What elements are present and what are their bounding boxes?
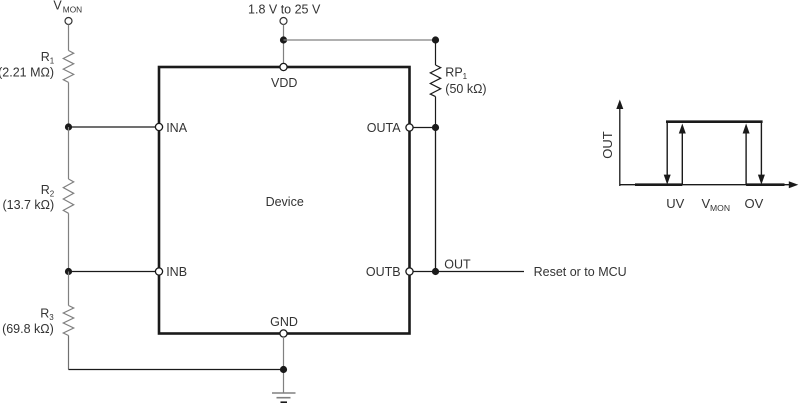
svg-text:OUT: OUT <box>444 257 471 271</box>
svg-text:R: R <box>40 306 49 320</box>
svg-text:OUTB: OUTB <box>366 265 401 279</box>
svg-text:(50 kΩ): (50 kΩ) <box>445 82 486 96</box>
svg-text:(69.8 kΩ): (69.8 kΩ) <box>2 322 54 336</box>
wire bottom rail to ground node <box>69 369 284 371</box>
svg-text:OUT: OUT <box>600 131 615 159</box>
label R3 <box>40 306 54 322</box>
wire node A to R2 <box>68 127 70 179</box>
svg-text:MON: MON <box>63 4 82 14</box>
svg-text:(13.7 kΩ): (13.7 kΩ) <box>2 198 54 212</box>
graph X axis <box>620 181 799 188</box>
pin GND <box>280 330 287 337</box>
wire supply terminal to VDD pin <box>283 25 285 64</box>
ground <box>272 393 296 402</box>
svg-text:R: R <box>41 50 50 64</box>
wire R2 to node B <box>68 213 70 271</box>
svg-text:MON: MON <box>710 203 730 213</box>
svg-text:V: V <box>53 0 62 13</box>
label RP1 <box>445 65 467 81</box>
junction node B <box>65 268 72 275</box>
wire RP1 top lead <box>435 40 437 65</box>
junction OUTA node <box>432 124 439 131</box>
label R2 <box>41 183 55 199</box>
rising edge arrow at OV <box>743 124 750 185</box>
svg-text:Device: Device <box>266 195 304 209</box>
svg-text:INB: INB <box>166 265 187 279</box>
svg-text:UV: UV <box>666 196 684 211</box>
pin OUTB <box>406 268 413 275</box>
wire node B to R3 <box>68 272 70 306</box>
waveform high segment <box>666 120 763 123</box>
rising edge arrow at UV <box>679 124 686 185</box>
wire node A to INA <box>69 126 156 128</box>
graph label VMON <box>702 196 731 213</box>
pin INA <box>155 123 162 130</box>
device U1 box <box>159 67 410 334</box>
wire VMON terminal to R1 <box>68 25 70 51</box>
svg-text:R: R <box>41 183 50 197</box>
wire R3 down to bottom rail <box>68 336 70 370</box>
svg-text:OUTA: OUTA <box>367 121 401 135</box>
svg-text:(2.21 MΩ): (2.21 MΩ) <box>0 65 54 79</box>
junction OUTB node <box>432 268 439 275</box>
terminal VDD supply <box>280 18 287 25</box>
svg-text:Reset or to MCU: Reset or to MCU <box>534 265 627 279</box>
resistor R3 <box>63 306 73 336</box>
waveform low segment right <box>746 183 784 186</box>
label R1 <box>41 50 55 66</box>
wire OUTB to junction <box>413 271 436 273</box>
junction ground node <box>280 366 287 373</box>
junction RP1 top <box>432 36 439 43</box>
junction supply split <box>280 36 287 43</box>
svg-text:RP: RP <box>445 65 462 79</box>
falling edge at UV with down arrow <box>664 122 671 185</box>
wire node B to INB <box>69 271 156 273</box>
svg-text:INA: INA <box>166 121 188 135</box>
falling edge at OV with down arrow <box>758 122 765 185</box>
resistor RP1 <box>430 65 440 97</box>
node VMON label <box>53 0 82 14</box>
junction node A <box>65 123 72 130</box>
graph Y axis OUT <box>616 100 623 187</box>
svg-text:VDD: VDD <box>271 76 297 90</box>
pin OUTA <box>406 124 413 131</box>
wire supply to RP1 <box>284 39 436 41</box>
wire GND pin to ground <box>283 337 285 393</box>
wire R1 to node A <box>68 82 70 127</box>
waveform low segment left <box>635 183 682 186</box>
svg-text:1: 1 <box>50 57 55 66</box>
terminal VMON <box>65 18 72 25</box>
svg-text:OV: OV <box>745 196 764 211</box>
pin VDD <box>280 63 287 70</box>
resistor R2 <box>63 179 73 213</box>
wire OUTA to junction <box>413 127 436 129</box>
wire OUT net <box>436 271 525 273</box>
wire RP1 bottom lead <box>435 97 437 128</box>
svg-text:1.8 V to 25 V: 1.8 V to 25 V <box>248 3 321 17</box>
svg-text:GND: GND <box>270 315 298 329</box>
wire OUTA node to OUTB node <box>435 128 437 272</box>
resistor R1 <box>63 51 73 83</box>
svg-text:1: 1 <box>463 72 468 81</box>
svg-text:3: 3 <box>49 313 54 322</box>
pin INB <box>155 268 162 275</box>
